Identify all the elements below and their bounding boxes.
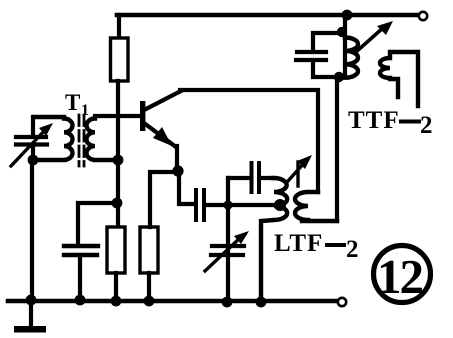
- node C1 bottom junction: [28, 155, 39, 166]
- svg-text:12: 12: [377, 249, 423, 304]
- wire collector line to LTF-2: [180, 90, 318, 192]
- capacitor C1 variable, tank left leg: [31, 117, 35, 135]
- resistor R3: [140, 227, 158, 273]
- transformer TTF-2 secondary winding: [380, 52, 418, 106]
- wire emitter node down to coupling cap: [179, 171, 193, 204]
- transformer T1 core dashes: [79, 115, 84, 166]
- svg-text:1: 1: [81, 102, 89, 119]
- transformer LTF-2 core arrow: [288, 162, 305, 181]
- node crossing padder branch: [223, 200, 232, 209]
- node rail junction LTF-2: [256, 297, 267, 308]
- capacitor C4 coupling to tap: [194, 190, 198, 220]
- wire base lead: [95, 114, 140, 118]
- capacitor C6 variable padder: [212, 244, 244, 248]
- resistor R1: [111, 38, 129, 81]
- transformer TTF-2 core arrow: [356, 27, 384, 52]
- wire bottom ground rail: [8, 299, 338, 304]
- resistor R2: [107, 227, 125, 273]
- node LTF-2 tap: [274, 199, 286, 211]
- svg-text:T: T: [65, 90, 80, 115]
- wire R2 bottom lead: [114, 273, 118, 301]
- transistor Q1 base bar: [140, 101, 145, 131]
- node rail junction bypass cap: [75, 295, 86, 306]
- capacitor C2 bypass: [64, 244, 98, 248]
- transformer TTF-2 primary winding: [345, 38, 358, 78]
- wire R1 bottom lead down bias line: [116, 81, 120, 227]
- ground: [29, 300, 33, 327]
- wire LTF-2 secondary bottom up to TTF-2: [335, 77, 339, 221]
- wire rail left corner down to R1: [117, 15, 121, 38]
- node bias/bypass junction: [112, 198, 123, 209]
- arrow of variable capacitor C1: [11, 128, 47, 166]
- wire bypass capacitor branch: [78, 203, 117, 243]
- wire TTF-2 tank top branch: [313, 33, 344, 50]
- capacitor C5 to LTF-2 top: [250, 163, 254, 192]
- wire left leg down to ground rail: [30, 160, 34, 300]
- wire supply junction down to TTF-2: [343, 15, 347, 77]
- node rail junction R3: [144, 296, 155, 307]
- wire top supply rail: [117, 13, 419, 18]
- svg-text:TTF: TTF: [348, 107, 400, 134]
- node top-right terminal: [419, 12, 427, 20]
- wire cap to winding tap: [206, 203, 277, 207]
- wire R3 bottom lead: [147, 273, 151, 301]
- wire emitter down to node: [175, 146, 179, 171]
- svg-text:2: 2: [420, 112, 433, 139]
- node rail junction padder: [222, 297, 233, 308]
- node bottom-right terminal: [338, 298, 346, 306]
- node junction on top rail: [342, 10, 353, 21]
- svg-text:LTF: LTF: [274, 230, 323, 257]
- node rail junction left leg: [26, 295, 37, 306]
- transformer LTF-2 primary winding: [261, 178, 287, 301]
- node TTF-2 tank top: [337, 27, 347, 37]
- wire top branch to C5: [228, 176, 249, 180]
- transistor Q1 emitter stroke with arrow: [144, 123, 176, 147]
- transformer LTF-2 secondary winding: [295, 192, 337, 221]
- node bias/winding junction: [113, 155, 124, 166]
- transformer T1 primary winding: [34, 117, 73, 160]
- node emitter junction: [172, 165, 183, 176]
- svg-text:2: 2: [346, 236, 359, 263]
- figure number 12 circle: [374, 246, 431, 303]
- capacitor C3 TTF-2 tank: [297, 50, 326, 54]
- node TTF-2 tank bottom: [334, 72, 344, 82]
- wire TTF-2 tank bottom branch: [313, 62, 341, 77]
- arrow of variable capacitor C6: [205, 236, 242, 271]
- wire emitter node left branch to R3: [150, 172, 178, 227]
- transformer T1 secondary winding: [86, 119, 118, 161]
- node rail junction R2: [111, 296, 122, 307]
- wire padder branch vertical: [226, 178, 230, 300]
- transistor Q1 collector stroke: [144, 91, 181, 110]
